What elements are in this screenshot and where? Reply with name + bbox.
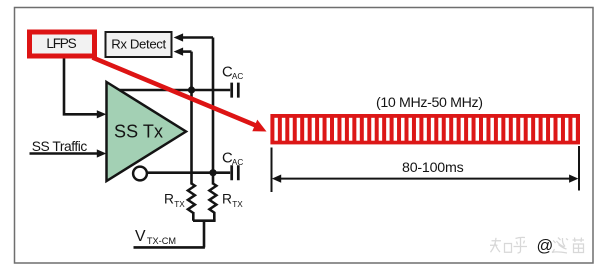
svg-text:TX-CM: TX-CM (147, 236, 176, 246)
svg-text:LFPS: LFPS (46, 36, 76, 51)
svg-text:SS Tx: SS Tx (114, 121, 163, 141)
svg-text:Rx Detect: Rx Detect (111, 36, 166, 51)
svg-text:@: @ (537, 237, 554, 255)
svg-text:TX: TX (232, 200, 243, 209)
svg-text:V: V (135, 228, 146, 245)
svg-text:R: R (222, 191, 232, 206)
svg-text:TX: TX (174, 200, 185, 209)
svg-text:80-100ms: 80-100ms (402, 160, 464, 176)
svg-text:R: R (164, 191, 174, 206)
svg-text:(10 MHz-50 MHz): (10 MHz-50 MHz) (376, 95, 483, 111)
svg-text:SS Traffic: SS Traffic (32, 139, 88, 154)
svg-text:AC: AC (232, 158, 243, 167)
svg-text:AC: AC (232, 72, 243, 81)
